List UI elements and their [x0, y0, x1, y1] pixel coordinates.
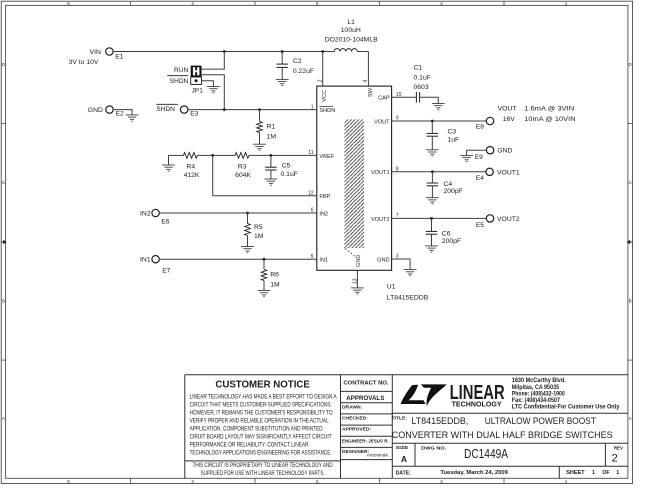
ground C4 [426, 198, 439, 204]
wire SW drop [367, 52, 369, 87]
ground C1 [432, 104, 445, 110]
terminal E2 (GND) [106, 106, 113, 113]
svg-text:E7: E7 [162, 267, 170, 274]
svg-text:JP1: JP1 [192, 87, 204, 94]
svg-text:VOUT: VOUT [374, 119, 390, 125]
svg-text:Phone: (408)432-1900: Phone: (408)432-1900 [512, 392, 566, 398]
svg-text:TITLE:: TITLE: [392, 415, 408, 421]
svg-text:2: 2 [317, 79, 323, 82]
svg-text:VOUT2: VOUT2 [497, 216, 520, 223]
node junction VIN/C2 [281, 50, 284, 53]
svg-text:E6: E6 [161, 218, 169, 225]
overline SHDN pin [319, 105, 333, 107]
svg-text:E5: E5 [476, 222, 484, 229]
overline SHDN net [156, 103, 178, 105]
wire to R4 [169, 154, 184, 156]
svg-text:REV: REV [614, 445, 624, 451]
wire E2 to ground [113, 110, 132, 115]
svg-text:ENGINEER: JESUS R.: ENGINEER: JESUS R. [342, 438, 389, 444]
svg-text:6: 6 [311, 208, 314, 214]
svg-text:VREF: VREF [319, 154, 335, 160]
svg-text:SHEET: SHEET [566, 470, 585, 476]
svg-text:VCC: VCC [322, 90, 328, 102]
svg-text:1: 1 [565, 1, 568, 6]
wire VIN to C2 [281, 52, 283, 65]
svg-text:1: 1 [311, 104, 314, 110]
svg-text:412K: 412K [184, 172, 200, 179]
svg-text:SW: SW [368, 87, 374, 97]
svg-text:4: 4 [363, 79, 369, 82]
svg-text:SHDN: SHDN [319, 108, 335, 114]
svg-text:1630 McCarthy Blvd.: 1630 McCarthy Blvd. [512, 378, 566, 384]
ground E9 [460, 155, 473, 161]
svg-text:APPROVALS: APPROVALS [346, 395, 385, 402]
svg-text:GND: GND [497, 148, 512, 155]
svg-text:2: 2 [612, 453, 618, 465]
svg-text:B: B [629, 299, 632, 304]
svg-text:CIRUIT BOARD LAYOUT MAY SIGNIF: CIRUIT BOARD LAYOUT MAY SIGNIFICANTLY AF… [190, 434, 332, 441]
svg-text:VIN: VIN [90, 49, 101, 56]
wire SHDN net to U1 pin1 [188, 109, 317, 111]
U1 exposed pad dashed connection [345, 248, 356, 257]
svg-text:11: 11 [308, 150, 313, 156]
svg-text:CUSTOMER NOTICE: CUSTOMER NOTICE [215, 380, 310, 391]
svg-text:SIZE: SIZE [395, 445, 409, 451]
svg-text:IN2: IN2 [140, 210, 151, 217]
capacitor C1 [416, 92, 419, 103]
ground R1 [253, 144, 266, 150]
node junction VREF/FBP [211, 154, 214, 157]
svg-text:1M: 1M [254, 233, 264, 240]
node junction VIN/JP1 [223, 50, 226, 53]
Linear Technology logo [401, 384, 447, 406]
svg-text:APPLICATION. COMPONENT SUBSTI: APPLICATION. COMPONENT SUBSTITUTION AND … [190, 426, 323, 433]
capacitor C5 [270, 155, 272, 167]
svg-text:4: 4 [191, 1, 194, 6]
svg-text:DATE:: DATE: [396, 470, 411, 476]
overline SHDN JP1 [167, 75, 188, 77]
svg-text:SHDN: SHDN [170, 78, 189, 85]
ground JP1 [207, 87, 220, 93]
svg-text:IN1: IN1 [140, 257, 151, 264]
svg-text:1uF: 1uF [448, 137, 460, 144]
svg-text:Tuesday, March 24, 2009: Tuesday, March 24, 2009 [440, 470, 508, 476]
svg-text:CIRCUIT THAT MEETS CUSTOMER-SU: CIRCUIT THAT MEETS CUSTOMER-SUPPLIED SPE… [190, 402, 332, 409]
capacitor C4 [431, 172, 433, 183]
svg-text:LTC Confidential-For Customer: LTC Confidential-For Customer Use Only [512, 405, 620, 411]
svg-text:C1: C1 [414, 64, 423, 71]
wire IN1 to U1 pin5 [159, 258, 317, 260]
wire IN2 to U1 pin6 [159, 212, 317, 214]
svg-text:0603: 0603 [414, 84, 429, 91]
node junction VOUT2/C6 [430, 217, 433, 220]
ground C2 [276, 79, 289, 85]
svg-text:VOUT2: VOUT2 [371, 217, 390, 223]
resistor R1 [259, 110, 261, 122]
svg-text:TECHNOLOGY APPLICATIONS ENGINE: TECHNOLOGY APPLICATIONS ENGINEERING FOR … [190, 450, 332, 457]
svg-text:C3: C3 [448, 128, 457, 135]
svg-text:E3: E3 [190, 111, 198, 118]
svg-text:AntoninaK.: AntoninaK. [367, 453, 390, 459]
svg-text:0.22uF: 0.22uF [293, 68, 314, 75]
svg-text:DESIGNER:: DESIGNER: [342, 449, 370, 455]
svg-text:200pF: 200pF [442, 238, 461, 245]
terminal E4 (VOUT1) [486, 168, 493, 175]
svg-text:E9: E9 [475, 154, 483, 161]
wire FBP feedback [213, 155, 317, 195]
svg-text:2: 2 [440, 1, 443, 6]
svg-text:A: A [401, 454, 407, 464]
svg-text:VOUT1: VOUT1 [497, 169, 520, 176]
svg-text:LINEAR TECHNOLOGY HAS MADE A B: LINEAR TECHNOLOGY HAS MADE A BEST EFFORT… [190, 394, 337, 401]
svg-text:10mA @ 10VIN: 10mA @ 10VIN [524, 116, 575, 123]
svg-text:PERFORMANCE OR RELIABILITY. C: PERFORMANCE OR RELIABILITY. CONTACT LINE… [190, 442, 309, 449]
wire E9 to ground [467, 150, 487, 155]
svg-text:1: 1 [565, 479, 568, 484]
U1 exposed pad hatch [345, 119, 365, 248]
node junction SHDN/JP1 [223, 108, 226, 111]
jumper JP1 [191, 66, 202, 85]
wire R4 to R3 [197, 154, 235, 156]
svg-text:5: 5 [67, 1, 70, 6]
svg-text:C5: C5 [282, 163, 291, 170]
svg-text:R5: R5 [254, 224, 263, 231]
svg-text:SUPPLIED FOR USE WITH LINEAR T: SUPPLIED FOR USE WITH LINEAR TECHNOLOGY … [201, 470, 325, 477]
ground R6 [258, 291, 271, 297]
ground R4 [162, 165, 175, 171]
ground E2 [126, 115, 139, 121]
wire JP1 pin2 to SHDN net [202, 75, 225, 110]
svg-text:100uH: 100uH [341, 27, 361, 34]
wire JP1 pin3 to ground [202, 81, 214, 87]
svg-text:LT8415EDDB,: LT8415EDDB, [411, 416, 468, 426]
resistor R4 [183, 153, 197, 159]
svg-text:GND: GND [356, 255, 362, 267]
svg-text:Fax: (408)434-0507: Fax: (408)434-0507 [512, 398, 561, 404]
svg-text:CHECKED:: CHECKED: [342, 416, 368, 422]
svg-text:THIS CIRCUIT IS PROPRIETARY TO: THIS CIRCUIT IS PROPRIETARY TO LINEAR TE… [193, 462, 333, 469]
svg-text:FBP: FBP [319, 194, 330, 200]
wire VOUT1 to E4 [392, 171, 487, 173]
svg-text:C6: C6 [442, 231, 451, 238]
svg-text:2: 2 [440, 479, 443, 484]
wire VOUT2 to E5 [392, 217, 487, 219]
terminal E8 (VOUT) [486, 117, 493, 124]
svg-text:DC1449A: DC1449A [464, 447, 509, 461]
terminal E7 (IN1) [152, 256, 159, 263]
svg-text:CONVERTER WITH DUAL HALF BRIDG: CONVERTER WITH DUAL HALF BRIDGE SWITCHES [392, 430, 613, 440]
svg-text:3: 3 [316, 1, 319, 6]
capacitor C3 [431, 121, 433, 133]
terminal E5 (VOUT2) [486, 215, 493, 222]
svg-text:GND: GND [88, 107, 103, 114]
inductor L1 [334, 49, 357, 52]
svg-text:3V to 10V: 3V to 10V [69, 59, 99, 66]
svg-text:E1: E1 [115, 53, 123, 60]
title block borders [185, 375, 628, 479]
svg-text:ULTRALOW POWER BOOST: ULTRALOW POWER BOOST [485, 416, 597, 426]
ground U1 pin3 [404, 270, 417, 276]
svg-text:VOUT: VOUT [498, 105, 517, 112]
svg-text:CONTRACT NO.: CONTRACT NO. [343, 381, 389, 387]
svg-text:DRAWN:: DRAWN: [342, 404, 362, 410]
resistor R6 [263, 259, 265, 269]
svg-text:R1: R1 [267, 124, 276, 131]
capacitor C2 [277, 64, 288, 67]
svg-text:IN2: IN2 [319, 211, 328, 217]
svg-text:GND: GND [377, 257, 389, 263]
svg-text:VOUT1: VOUT1 [371, 170, 390, 176]
node junction VREF/C5 [270, 154, 273, 157]
wire VIN rail [113, 51, 334, 53]
svg-text:LT8415EDDB: LT8415EDDB [387, 295, 429, 302]
ground R5 [241, 247, 254, 253]
ground C3 [426, 150, 439, 156]
svg-text:OF: OF [602, 470, 609, 476]
svg-text:E2: E2 [116, 111, 124, 118]
svg-text:TECHNOLOGY: TECHNOLOGY [452, 401, 502, 409]
svg-text:4: 4 [191, 479, 194, 484]
svg-text:E8: E8 [476, 124, 484, 131]
svg-text:1M: 1M [270, 281, 280, 288]
svg-text:Milpitas, CA 95035: Milpitas, CA 95035 [512, 385, 560, 391]
ground C6 [425, 246, 438, 252]
terminal E3 (SHDN) [181, 106, 188, 113]
ground C5 [265, 179, 278, 185]
svg-text:200pF: 200pF [444, 188, 463, 195]
svg-text:DWG NO.: DWG NO. [421, 445, 447, 451]
terminal E6 (IN2) [152, 209, 159, 216]
wire R4 left to ground [168, 155, 170, 165]
svg-text:1.6mA @ 3VIN: 1.6mA @ 3VIN [524, 105, 574, 112]
svg-text:APPROVED:: APPROVED: [342, 427, 371, 433]
svg-text:IN1: IN1 [319, 258, 328, 264]
wire VCC drop [322, 52, 324, 87]
node junction IN2/R5 [246, 212, 249, 215]
svg-text:E4: E4 [476, 175, 484, 182]
svg-text:0.1uF: 0.1uF [281, 171, 298, 178]
terminal E9 (GND) [486, 147, 493, 154]
node junction VOUT/C3 [431, 120, 434, 123]
node junction SHDN/R1 [258, 108, 261, 111]
svg-text:16V: 16V [503, 116, 516, 123]
wire L1 to SW [357, 51, 368, 53]
op-amp U1 LT8415EDDB body [317, 86, 392, 270]
svg-text:VERIFY PROPER AND RELIABLE OPE: VERIFY PROPER AND RELIABLE OPERATION IN … [190, 418, 329, 425]
node junction VIN/VCC [321, 50, 324, 53]
svg-text:0.1uF: 0.1uF [414, 74, 431, 81]
svg-text:604K: 604K [235, 172, 251, 179]
frame center arrows [1, 241, 3, 243]
wire R3 to U1 pin11 [249, 154, 317, 156]
node junction IN1/R6 [263, 258, 266, 261]
svg-text:CAP: CAP [378, 96, 390, 102]
resistor R5 [247, 213, 249, 224]
svg-text:1: 1 [592, 470, 595, 476]
svg-text:1M: 1M [267, 134, 277, 141]
svg-text:HOWEVER, IT REMAINS THE CUSTOM: HOWEVER, IT REMAINS THE CUSTOMER'S RESPO… [190, 410, 333, 417]
svg-text:L1: L1 [347, 19, 355, 26]
wire JP1 pin1 to VIN [202, 52, 225, 70]
resistor R3 [235, 153, 249, 159]
svg-text:3: 3 [316, 479, 319, 484]
svg-text:1: 1 [616, 470, 619, 476]
capacitor C6 [431, 218, 433, 231]
wire U1 pin3 to ground [392, 259, 411, 270]
svg-text:R6: R6 [270, 271, 279, 278]
svg-text:5: 5 [311, 254, 314, 260]
ground U1 pin13 [351, 288, 364, 294]
svg-text:RUN: RUN [174, 67, 189, 74]
terminal E1 (VIN) [106, 48, 113, 55]
svg-text:SHDN: SHDN [156, 106, 175, 113]
svg-text:U1: U1 [387, 283, 396, 290]
wire VOUT to E8 [392, 120, 487, 122]
svg-text:R4: R4 [186, 163, 195, 170]
svg-text:C2: C2 [293, 58, 302, 65]
svg-text:12: 12 [308, 190, 314, 196]
svg-text:DO2010-104MLB: DO2010-104MLB [325, 36, 378, 43]
wire CAP to C1 [392, 96, 417, 98]
svg-text:R3: R3 [238, 163, 247, 170]
wire U1 pin13 to ground [356, 270, 358, 288]
svg-text:B: B [2, 299, 5, 304]
svg-text:5: 5 [67, 479, 70, 484]
node junction VOUT1/C4 [431, 170, 434, 173]
